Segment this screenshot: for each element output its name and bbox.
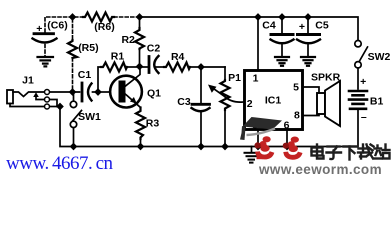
svg-text:2: 2 [247, 98, 253, 110]
svg-text:C5: C5 [315, 20, 329, 32]
svg-text:8: 8 [294, 110, 300, 122]
svg-text:J1: J1 [22, 75, 34, 87]
svg-text:C3: C3 [177, 96, 191, 108]
svg-text:6: 6 [284, 120, 290, 132]
svg-text:IC1: IC1 [265, 95, 282, 107]
svg-text:www.eeworm.com: www.eeworm.com [258, 162, 382, 175]
svg-text:(R6): (R6) [94, 21, 114, 33]
svg-text:www. 4667. cn: www. 4667. cn [6, 153, 114, 174]
svg-text:SW1: SW1 [78, 111, 101, 123]
svg-text:R2: R2 [121, 34, 135, 46]
svg-text:SW2: SW2 [368, 51, 391, 63]
svg-text:C4: C4 [262, 20, 276, 32]
svg-text:1: 1 [253, 73, 259, 85]
svg-text:R3: R3 [146, 118, 160, 130]
svg-text:Q1: Q1 [147, 88, 161, 100]
svg-text:+: + [36, 23, 42, 35]
svg-text:R1: R1 [111, 51, 125, 63]
svg-text:(R5): (R5) [78, 42, 98, 54]
svg-text:+: + [299, 21, 305, 33]
svg-text:5: 5 [293, 82, 299, 94]
svg-text:SPKR: SPKR [311, 72, 341, 84]
svg-text:B1: B1 [370, 96, 384, 108]
svg-text:–: – [361, 111, 367, 123]
svg-text:C1: C1 [78, 69, 92, 81]
svg-text:C2: C2 [147, 43, 161, 55]
svg-text:(C6): (C6) [47, 20, 67, 32]
svg-text:R4: R4 [171, 51, 185, 63]
svg-text:P1: P1 [228, 72, 241, 84]
svg-text:+: + [360, 76, 366, 88]
